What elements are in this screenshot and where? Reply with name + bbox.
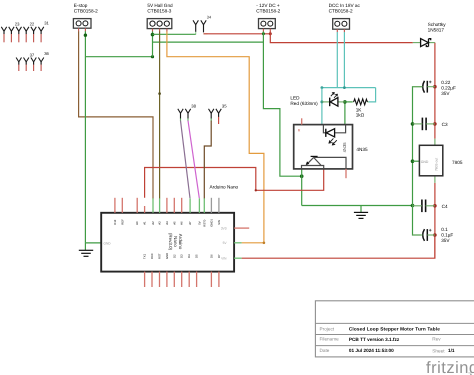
svg-text:A6: A6 [180,221,184,225]
wire green LED-resistor link [345,101,352,103]
node stub row2 pin4 label 36 [38,51,49,71]
wire 5V Hall pin1 green [152,31,154,56]
svg-text:D7: D7 [217,254,221,258]
top pin stubs [115,198,182,213]
node dot cap 0.22 right [433,85,437,89]
pin stub bottom-right collector [345,169,347,178]
node stub pair 34 pin1 [193,20,198,34]
node dot at 152.5,56.7 [151,55,154,58]
terminal block J1 E-stop CTB0158-2 [73,3,98,28]
node bendpoint red [255,189,257,191]
svg-text:4N35: 4N35 [342,142,347,153]
svg-text:RST: RST [158,253,162,259]
svg-text:R: R [298,129,301,133]
wire red regulator chain down [434,183,436,258]
node dot 7805 gnd [411,159,415,163]
node dot teal rail mid [343,86,346,89]
node stub pair 38 pin2 label 38 [185,104,196,122]
wire teal right drop to resistor [369,88,376,102]
wire green GND hline to Arduino left pin [85,242,101,244]
node stub pair 35 pin1 [209,109,214,121]
node dot 5V Hall pin1 [151,33,155,37]
pin stub top-left unused [301,118,303,124]
svg-text:LED: LED [290,96,300,101]
wire green hline to -12V column [153,41,264,43]
svg-text:RST0: RST0 [202,219,206,227]
wire 5V Hall pin3 orange to Arduino VIN [167,31,264,242]
node stub row1 pin3 label 23 [15,22,22,43]
terminal block J4 DCC In 18V ac CTB0158-2 [329,3,361,29]
svg-text:Arduino Nano: Arduino Nano [210,185,239,190]
svg-text:A1: A1 [143,221,147,225]
svg-text:A7: A7 [188,221,192,225]
node dot teal rail left [321,86,324,89]
svg-text:fritzing: fritzing [426,359,474,375]
svg-text:GND: GND [421,160,429,164]
svg-text:Date: Date [320,348,330,353]
svg-text:5V: 5V [197,221,201,225]
node stub row2 pin1 [16,58,21,72]
node dot LED anode junction [320,100,323,103]
node dot C3 right [433,122,437,126]
svg-text:0.22µF: 0.22µF [441,86,456,91]
svg-text:Closed Loop Stepper Motor Turn: Closed Loop Stepper Motor Turn Table [349,327,440,332]
wire green E-stop junction to 5V Hall column [85,56,152,58]
wire green right column (cap negatives + 7805 GND) [413,87,423,235]
internal LED of U1 [323,125,345,133]
svg-text:(Rev3.0): (Rev3.0) [168,233,173,251]
svg-text:A2: A2 [151,221,155,225]
svg-text:CTB0158-2: CTB0158-2 [256,9,280,14]
node dot E-stop pin2 [84,34,87,37]
node dot 4N35 emitter junction [300,174,304,178]
Arduino Nano U3 [101,185,249,288]
node dot -12V pin2 red [269,32,272,35]
svg-text:Rev: Rev [432,337,441,342]
node stub row1 pin2 [9,27,14,43]
svg-text:C3: C3 [442,122,448,127]
svg-text:TX1: TX1 [143,253,147,259]
svg-text:CTB0158-2: CTB0158-2 [74,9,98,14]
bottom pin stubs [145,272,219,287]
svg-text:Red (633nm): Red (633nm) [290,101,318,106]
node dot ground rail at C4 [411,204,415,208]
node stub row2 pin3 label 37 [30,52,37,71]
svg-text:GND: GND [104,242,112,246]
wire green hline to stub 34a [153,33,196,35]
node bendpoint orange [263,242,266,245]
wire teal top rail [322,87,376,89]
LED D2 Red 633nm [290,93,345,107]
node stub row1 pin5 label 22 [30,22,37,43]
svg-text:RX0: RX0 [150,253,154,259]
regulator U2 7805 [419,139,462,183]
wire green ground rail to C4 [302,205,413,207]
node bendpoint olive [158,92,161,95]
ground symbol G1 [79,250,93,256]
svg-text:C4: C4 [442,204,448,209]
svg-text:VIN: VIN [221,257,227,261]
svg-text:D3: D3 [180,254,184,258]
svg-text:1/1: 1/1 [448,348,455,353]
svg-text:Filename: Filename [320,337,340,342]
svg-text:A4: A4 [165,221,169,225]
svg-text:0.1µF: 0.1µF [441,233,453,238]
wire magenta1 stub38a to Arduino [181,121,191,199]
svg-text:35V: 35V [441,91,450,96]
svg-text:1kΩ: 1kΩ [356,113,365,118]
svg-text:36: 36 [44,51,49,56]
svg-text:D13: D13 [113,219,117,225]
svg-text:0.1: 0.1 [441,227,448,232]
terminal block J3 -12V DC + CTB0158-2 [256,3,280,28]
capacitor C4 [413,200,448,213]
svg-text:Project: Project [320,326,335,331]
pin legs terminal blocks [79,28,345,32]
svg-text:D4: D4 [187,254,191,258]
svg-text:1K: 1K [356,107,363,112]
wire teal DCC pin1 down [336,32,338,88]
wire E-stop pin2 green down to Arduino GND [84,31,86,243]
wire ground stem G2 [360,206,362,213]
svg-text:A3: A3 [158,221,162,225]
wire red from Schottky cathode down to 7805 in [434,43,436,139]
svg-text:™: ™ [468,371,472,375]
wire teal DCC pin2 down [343,32,345,88]
svg-text:REF: REF [120,219,124,225]
node dot cap 0.1 right [433,233,437,237]
svg-text:7805 out: 7805 out [435,158,439,171]
svg-text:1N5817: 1N5817 [428,28,445,33]
svg-text:- 12V DC +: - 12V DC + [256,3,280,8]
wire 5V Hall pin2 olive down to Arduino [159,31,161,198]
wire green 4N35 emitter pin down [301,169,303,206]
svg-text:DCC In 18V ac: DCC In 18V ac [329,3,361,8]
wire -12V pin1 stub [262,31,264,33]
svg-text:0.22: 0.22 [441,80,451,85]
wire green 7805 gnd lead [413,160,420,162]
node dot C4 right [433,204,437,208]
svg-text:D5: D5 [195,254,199,258]
resistor R1 1K [352,99,368,118]
svg-text:35: 35 [222,104,227,109]
node stub row1 pin6 label 21 [38,20,49,42]
diode D1 Schottky 1N5817 [413,22,446,47]
wire orange right pin riser handled above; wire red Arduino 5V to regulator output [242,235,435,258]
svg-text:CTB0158-2: CTB0158-2 [329,9,353,14]
svg-text:D6: D6 [209,254,213,258]
svg-text:VIN: VIN [217,220,221,225]
svg-text:3V3: 3V3 [221,226,227,230]
svg-text:A0: A0 [135,221,139,225]
svg-text:01 Jul 2024 11:53:00: 01 Jul 2024 11:53:00 [349,348,394,353]
title block frame [315,301,474,357]
capacitor C3 [413,118,448,131]
svg-text:D2: D2 [172,254,176,258]
node stub pair 38 pin1 [178,109,183,121]
svg-text:CTB0158-3: CTB0158-3 [147,9,171,14]
wire dark brown stub35a to Arduino [204,121,211,199]
svg-text:7805: 7805 [452,160,463,165]
optocoupler U1 4N35 [294,118,368,178]
svg-text:5V Hall Gnd: 5V Hall Gnd [147,3,173,8]
capacitor C1 0.22uF 35V polarized [413,80,457,96]
node stub pair 35 pin2 label 35 [216,104,227,124]
wire red Arduino D? to 4N35 base [145,168,324,198]
node stub row1 pin1 [1,27,6,43]
wire ground stem G1 [84,243,86,250]
internal phototransistor of U1 [302,157,347,169]
bottom pin labels rotated [143,253,221,259]
wire green LED cathode junction down to 4N35 [344,102,346,125]
terminal block J2 5V Hall Gnd CTB0158-3 [147,3,173,28]
wire green -12V- down to 4N35 emitter net [263,34,301,176]
svg-text:38: 38 [191,104,196,109]
svg-text:A5: A5 [172,221,176,225]
svg-text:GND: GND [165,253,169,259]
svg-text:31: 31 [44,20,49,25]
svg-text:37: 37 [30,52,35,57]
wire E-stop pin1 brown to Arduino D? [79,31,153,198]
svg-text:23: 23 [15,22,20,27]
svg-text:Sheet: Sheet [432,348,445,353]
wire teal left drop to LED and 4N35 anode [321,88,323,125]
svg-text:22: 22 [30,22,35,27]
svg-text:Schottky: Schottky [428,22,447,27]
node dot C3 left [411,122,415,126]
capacitor C2 0.1uF 35V polarized [413,227,454,243]
node dot -12V pin1 green [262,32,265,35]
right pin stubs [234,227,249,229]
node dot LED cathode junction [343,100,347,104]
wire red net stub34b to -12V pins [204,33,271,35]
node stub row2 pin2 [24,58,29,72]
node stub pair 34 pin2 label 34 [201,14,212,33]
ground symbol G2 [354,212,368,218]
node stub row1 pin4 [24,27,29,43]
top pin labels rotated [113,219,221,227]
wire magenta2 stub38b to Arduino [188,121,199,199]
svg-text:GND1: GND1 [209,219,213,227]
svg-text:4N35: 4N35 [356,147,368,152]
svg-text:35V: 35V [441,238,450,243]
svg-text:E-stop: E-stop [74,3,88,8]
svg-text:PCB TT version 3.1.fzz: PCB TT version 3.1.fzz [349,337,400,342]
wire -12V pin2 stub [269,31,271,33]
wire red -12V+ to Schottky anode [270,34,413,43]
